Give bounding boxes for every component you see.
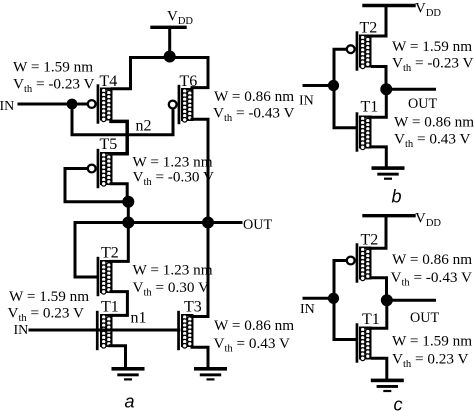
transistor T1 (nMOS, circuit a) xyxy=(96,311,111,350)
svg-text:W = 0.86 nm: W = 0.86 nm xyxy=(214,317,294,334)
ground (circuit b) xyxy=(372,166,405,180)
svg-text:c: c xyxy=(394,395,403,411)
wire OUT (circuit b) xyxy=(386,88,435,91)
wire T5 source node to OUT xyxy=(127,202,130,223)
junction OUT right xyxy=(202,217,214,229)
svg-text:Vth​ = -0.23 V: Vth​ = -0.23 V xyxy=(392,55,474,75)
svg-text:Vth​ = 0.23 V: Vth​ = 0.23 V xyxy=(392,351,468,371)
svg-text:Vth​ = 0.43 V: Vth​ = 0.43 V xyxy=(394,131,470,151)
svg-text:T1: T1 xyxy=(101,299,119,316)
wire T6 source to OUT xyxy=(192,119,208,222)
wire VDD to T2 drain (circuit c) xyxy=(373,216,387,249)
svg-text:IN: IN xyxy=(300,302,315,317)
junction T5 source node xyxy=(122,196,134,208)
wire OUT down to T2 drain xyxy=(111,223,128,262)
svg-text:n2: n2 xyxy=(136,118,152,135)
transistor T1 (nMOS, circuit b) xyxy=(356,112,371,151)
svg-text:T4: T4 xyxy=(100,73,118,90)
junction OUT node (circuit b) xyxy=(380,83,392,95)
wire T3 source to ground xyxy=(192,347,208,367)
VDD supply bar (circuit b) xyxy=(364,4,414,7)
svg-text:W = 0.86 nm: W = 0.86 nm xyxy=(392,251,472,268)
svg-text:Vth​ = -0.43 V: Vth​ = -0.43 V xyxy=(391,269,473,289)
wire OUT (circuit c) xyxy=(387,299,435,302)
svg-text:Vth​ = 0.43 V: Vth​ = 0.43 V xyxy=(214,335,290,355)
svg-text:T1: T1 xyxy=(362,311,380,328)
svg-text:b: b xyxy=(392,187,402,207)
wire OUT to T1c drain xyxy=(373,300,387,328)
wire IN down to T1c gate xyxy=(334,298,356,339)
ground (circuit c) xyxy=(371,379,404,393)
junction IN node (circuit c) xyxy=(328,293,339,304)
svg-text:T2: T2 xyxy=(361,232,379,249)
wire T1c source to ground xyxy=(373,358,387,379)
wire T5 gate feedback loop xyxy=(65,169,128,202)
svg-text:VDD​: VDD​ xyxy=(415,0,441,19)
ground (T3, circuit a) xyxy=(194,367,227,381)
svg-text:VDD​: VDD​ xyxy=(415,210,441,229)
transistor T1 (nMOS, circuit c) xyxy=(356,323,371,362)
svg-text:VDD​: VDD​ xyxy=(167,9,193,28)
transistor T2 (pMOS, circuit b) xyxy=(347,31,371,70)
junction OUT node (circuit c) xyxy=(381,294,393,306)
svg-text:W = 1.23 nm: W = 1.23 nm xyxy=(133,262,213,279)
wire IN (circuit c) xyxy=(304,297,334,300)
transistor T6 (pMOS) xyxy=(169,85,193,124)
wire VDD rail to T4 drain xyxy=(112,58,170,89)
svg-text:Vth​ = 0.30 V: Vth​ = 0.30 V xyxy=(133,279,209,299)
wire VDD bar to junction xyxy=(168,27,171,56)
wire T1b source to ground xyxy=(373,147,387,167)
svg-text:T6: T6 xyxy=(180,73,198,90)
svg-text:T3: T3 xyxy=(184,299,202,316)
svg-text:Vth​ = -0.30 V: Vth​ = -0.30 V xyxy=(133,169,215,189)
wire IN down to T1b gate xyxy=(334,86,356,128)
wire IN / node n1 to T3 gate xyxy=(30,329,179,332)
wire OUT to T2 gate feedback xyxy=(75,223,97,278)
svg-text:a: a xyxy=(125,392,135,411)
svg-text:W = 0.86 nm: W = 0.86 nm xyxy=(214,88,294,105)
svg-text:Vth​ = -0.23 V: Vth​ = -0.23 V xyxy=(13,76,95,96)
wire OUT to T1b drain xyxy=(373,89,387,117)
wire IN to T4 gate xyxy=(19,103,86,106)
svg-text:Vth​ = 0.23 V: Vth​ = 0.23 V xyxy=(8,305,84,325)
transistor T2 (nMOS, circuit a) xyxy=(97,257,112,296)
transistor T4 (pMOS) xyxy=(88,84,112,123)
wire OUT rail (circuit a) xyxy=(75,221,241,224)
svg-text:W = 1.59 nm: W = 1.59 nm xyxy=(13,59,93,76)
junction IN node (circuit a) xyxy=(67,99,78,110)
ground (T1, circuit a) xyxy=(112,367,145,381)
wire T2c gate to IN xyxy=(334,261,345,299)
wire T2c source to OUT xyxy=(373,278,387,300)
svg-text:OUT: OUT xyxy=(410,310,439,326)
wire T5 source stub xyxy=(111,184,127,202)
svg-text:W = 0.86 nm: W = 0.86 nm xyxy=(394,114,474,131)
svg-text:T5: T5 xyxy=(100,136,118,153)
svg-text:W = 1.59 nm: W = 1.59 nm xyxy=(392,332,472,349)
junction IN node (circuit b) xyxy=(328,80,339,91)
svg-text:W = 1.59 nm: W = 1.59 nm xyxy=(392,38,472,55)
svg-text:n1: n1 xyxy=(131,310,147,327)
VDD supply bar (circuit a) xyxy=(152,26,185,29)
svg-text:T2: T2 xyxy=(360,20,378,37)
wire VDD rail to T6 drain xyxy=(170,58,208,88)
wire IN junction down to n2 rail xyxy=(72,104,173,135)
wire T2 source to T1 drain xyxy=(110,292,127,316)
svg-text:W = 1.59 nm: W = 1.59 nm xyxy=(9,288,89,305)
wire VDD to T2 drain (circuit b) xyxy=(373,6,387,37)
svg-text:OUT: OUT xyxy=(243,217,272,233)
wire T2b source to OUT xyxy=(373,67,387,90)
junction OUT left xyxy=(122,217,134,229)
svg-text:T1: T1 xyxy=(361,99,379,116)
wire T4 source to T5 drain (node n2) xyxy=(111,121,127,153)
transistor T2 (pMOS, circuit c) xyxy=(347,243,371,282)
wire OUT down to T3 drain xyxy=(192,223,208,317)
VDD supply bar (circuit c) xyxy=(364,214,414,217)
svg-text:IN: IN xyxy=(299,94,314,109)
wire T1 source to ground xyxy=(110,346,126,367)
svg-text:Vth​ = -0.43 V: Vth​ = -0.43 V xyxy=(213,105,295,125)
wire T2b gate to IN xyxy=(334,49,345,85)
svg-text:T2: T2 xyxy=(101,245,119,262)
svg-text:OUT: OUT xyxy=(408,96,437,112)
transistor T3 (nMOS, circuit a) xyxy=(177,311,192,350)
svg-text:IN: IN xyxy=(14,323,29,338)
transistor T5 (pMOS) xyxy=(88,149,112,188)
wire IN (circuit b) xyxy=(304,84,334,87)
junction VDD node xyxy=(164,51,176,63)
svg-text:IN: IN xyxy=(0,99,14,114)
